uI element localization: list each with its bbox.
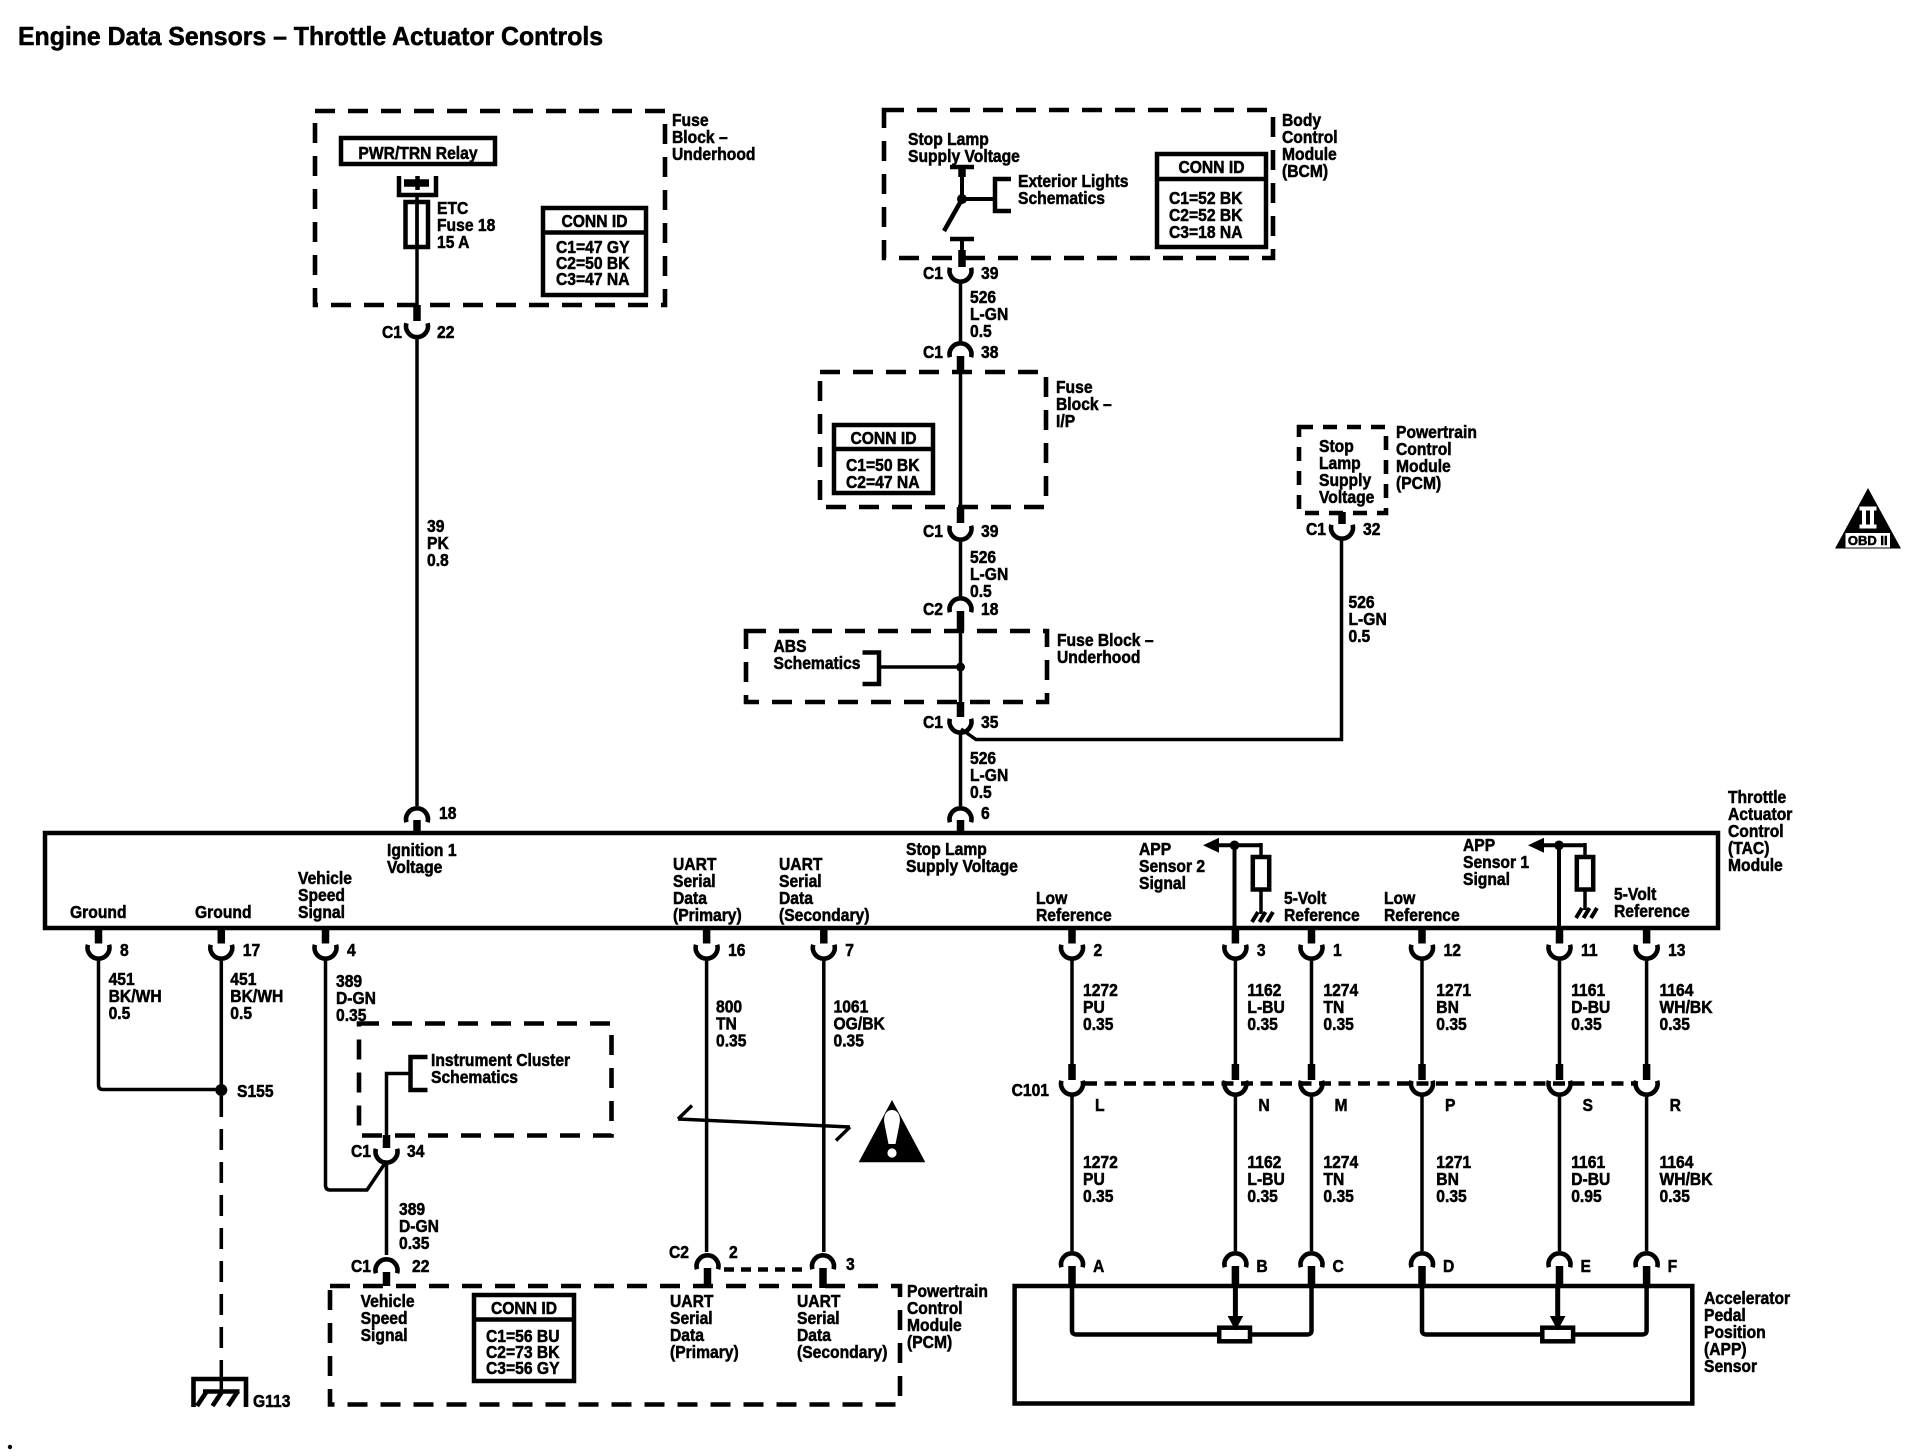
- svg-text:B: B: [1256, 1256, 1267, 1276]
- wire label 389 D-GN 0.35 (lower): [399, 1199, 439, 1253]
- pin letter C of APP sensor: [1333, 1256, 1344, 1276]
- stop lamp switch in BCM: [950, 165, 974, 170]
- pin number 1: [1333, 940, 1342, 960]
- potentiometer APP1: [1542, 1328, 1573, 1342]
- wire label 1161 D-BU 0.95 (lower): [1571, 1152, 1610, 1206]
- ground symbol G113: [194, 1379, 247, 1407]
- connector C1 35 (fuse block underhood out): [950, 719, 972, 733]
- callout pointer line: [678, 1106, 850, 1141]
- title: [18, 22, 603, 51]
- connector C1 34 (instrument cluster): [376, 1149, 398, 1163]
- svg-text:C3=18 NA: C3=18 NA: [1169, 222, 1243, 242]
- wire 1164 WH/BK (lower segment R): [1645, 1097, 1649, 1252]
- wire label 1271 BN 0.35 (lower): [1436, 1152, 1471, 1206]
- connector C101 pin L: [1061, 1081, 1083, 1095]
- connector TAC pin 13: [1636, 945, 1658, 959]
- pin number 6: [981, 803, 990, 823]
- svg-text:C1: C1: [923, 521, 943, 541]
- PWR/TRN Relay box: [341, 138, 495, 164]
- wire: switch output: [960, 239, 964, 252]
- svg-text:Schematics: Schematics: [774, 653, 861, 673]
- svg-text:(PCM): (PCM): [907, 1332, 952, 1352]
- pin number 2: [1094, 940, 1103, 960]
- wire label 1272 PU 0.35 (upper): [1083, 980, 1118, 1034]
- label C2 of connector C2 18 (fuse block underhood): [923, 599, 943, 619]
- connector C1 38 (fuse block IP): [950, 343, 972, 357]
- wire APP pin F to potentiometer 2: [1573, 1286, 1647, 1335]
- PCM UART secondary label: [797, 1291, 887, 1362]
- svg-text:Reference: Reference: [1036, 905, 1112, 925]
- dashed connector link C2-2 to 3: [724, 1267, 809, 1272]
- label G113: [253, 1391, 290, 1411]
- label C2 of connector C2 2 (PCM UART primary): [669, 1242, 689, 1262]
- wire 1061 OG/BK (pin 7) to PCM pin 3: [822, 959, 826, 1252]
- svg-text:2: 2: [1094, 940, 1103, 960]
- svg-text:Signal: Signal: [1139, 873, 1186, 893]
- pin letter A of APP sensor: [1093, 1256, 1104, 1276]
- svg-text:Supply Voltage: Supply Voltage: [908, 146, 1020, 166]
- wire label 526 L-GN 0.5 (c): [970, 748, 1008, 802]
- wire label 1162 L-BU 0.35 (upper): [1247, 980, 1284, 1034]
- label C1 of connector C1 35 (fuse block underhood out): [923, 712, 943, 732]
- pin number 39 of connector C1 39 (BCM): [981, 263, 998, 283]
- fuse block - underhood (relay) dashed box: [315, 111, 665, 305]
- warning note triangle: [859, 1100, 926, 1162]
- PCM UART primary label: [670, 1291, 739, 1362]
- svg-text:0.5: 0.5: [109, 1003, 131, 1023]
- svg-text:F: F: [1668, 1256, 1678, 1276]
- wire: relay through fuse down to C1-22: [415, 195, 419, 309]
- connector TAC pin 12: [1411, 945, 1433, 959]
- svg-text:0.95: 0.95: [1571, 1186, 1601, 1206]
- BCM module label: [1282, 110, 1338, 181]
- svg-text:A: A: [1093, 1256, 1104, 1276]
- svg-text:39: 39: [981, 521, 998, 541]
- ABS schematics label: [774, 636, 861, 673]
- svg-text:P: P: [1445, 1095, 1455, 1115]
- svg-text:15 A: 15 A: [437, 232, 469, 252]
- wire to pull-up resistor APP2: [1259, 843, 1263, 857]
- wire label 1161 D-BU 0.35 (upper): [1571, 980, 1610, 1034]
- wire label 451 BK/WH 0.5 (pin 8): [109, 969, 162, 1023]
- PCM vehicle speed signal label: [361, 1291, 415, 1345]
- pin number 35 of connector C1 35 (fuse block underhood out): [981, 712, 998, 732]
- connector C1 39 (BCM): [950, 268, 972, 282]
- wire 1162 L-BU (lower segment N): [1234, 1097, 1238, 1252]
- wire: instrument cluster bracket to C1-34: [387, 1074, 411, 1136]
- svg-text:0.35: 0.35: [1660, 1014, 1690, 1034]
- pin letter N of C101: [1258, 1095, 1269, 1115]
- pin letter E of APP sensor: [1581, 1256, 1591, 1276]
- stub TAC pin 8: [95, 930, 103, 944]
- svg-text:32: 32: [1363, 519, 1380, 539]
- svg-text:0.5: 0.5: [230, 1003, 252, 1023]
- wire label 1162 L-BU 0.35 (lower): [1247, 1152, 1284, 1206]
- stub TAC pin 11: [1556, 930, 1564, 944]
- bracket to Exterior Lights Schematics: [995, 179, 1011, 211]
- wire APP pin D to potentiometer 2: [1422, 1286, 1542, 1335]
- label C1 of connector C1 22 (PCM vehicle speed): [351, 1256, 371, 1276]
- pin number 4: [347, 940, 356, 960]
- wire 800 TN (pin 16) to PCM C2-2: [705, 959, 709, 1252]
- svg-text:0.35: 0.35: [1083, 1186, 1113, 1206]
- svg-text:I/P: I/P: [1056, 411, 1075, 431]
- stub TAC pin 3: [1232, 930, 1240, 944]
- stub below APP pin L: [1068, 1266, 1076, 1286]
- svg-text:Reference: Reference: [1614, 901, 1690, 921]
- TAC label ignition 1 voltage: [387, 840, 457, 877]
- wire label 526 L-GN 0.5 (d): [1349, 592, 1387, 646]
- CONN ID table (fuse block IP): [834, 425, 933, 493]
- stub TAC pin 4: [322, 930, 330, 944]
- connector pin 3 (PCM UART secondary): [812, 1255, 834, 1269]
- pin letter D of APP sensor: [1443, 1256, 1454, 1276]
- pin number 11: [1581, 940, 1598, 960]
- svg-text:11: 11: [1581, 940, 1598, 960]
- svg-text:0.35: 0.35: [1247, 1186, 1277, 1206]
- svg-text:CONN ID: CONN ID: [1178, 157, 1244, 177]
- wire 526 L-GN 0.5 down to TAC pin 6: [959, 734, 963, 807]
- stub below C2-2: [704, 1268, 712, 1288]
- stub below C2-18: [957, 611, 965, 631]
- svg-text:38: 38: [981, 342, 998, 362]
- TAC label Ground 2: [195, 902, 252, 922]
- stub above C101 S: [1556, 1064, 1564, 1080]
- wire resistor APP1 to ground: [1583, 890, 1587, 911]
- stub below APP pin R: [1643, 1266, 1651, 1286]
- connector C1 32 (PCM): [1331, 525, 1353, 539]
- TAC label UART primary: [673, 854, 742, 925]
- svg-text:Voltage: Voltage: [387, 857, 442, 877]
- svg-text:E: E: [1581, 1256, 1591, 1276]
- CONN ID table (BCM): [1157, 154, 1266, 247]
- fuse block underhood label: [672, 110, 755, 164]
- svg-text:Signal: Signal: [361, 1325, 408, 1345]
- connector TAC pin 3: [1224, 945, 1246, 959]
- TAC label 5-volt reference 2: [1614, 884, 1690, 921]
- svg-text:Underhood: Underhood: [672, 144, 755, 164]
- label C1 of connector C1 39 (BCM): [923, 263, 943, 283]
- svg-text:C1: C1: [351, 1141, 371, 1161]
- BCM stop lamp supply voltage label: [908, 129, 1020, 166]
- instrument cluster schematics label: [431, 1050, 571, 1087]
- connector C2 2 (PCM UART primary): [697, 1255, 719, 1269]
- pin number 17: [243, 940, 260, 960]
- wire APP2 signal down to pin 3: [1233, 845, 1237, 928]
- svg-text:C1: C1: [923, 263, 943, 283]
- pin number 13: [1668, 940, 1685, 960]
- stub below APP pin N: [1232, 1266, 1240, 1286]
- wire resistor APP2 to ground: [1259, 890, 1263, 915]
- svg-text:(BCM): (BCM): [1282, 161, 1328, 181]
- TAC label Ground 1: [70, 902, 127, 922]
- wire 389 D-GN (pin 4) down and to C1-34: [326, 959, 387, 1190]
- bracket to ABS schematics: [863, 653, 880, 685]
- connector TAC pin 4: [315, 945, 337, 959]
- label C1 of connector C1 38 (fuse block IP): [923, 342, 943, 362]
- connector APP pin R: [1636, 1253, 1658, 1267]
- svg-text:35: 35: [981, 712, 998, 732]
- throttle actuator control (TAC) module box: [45, 833, 1718, 928]
- svg-text:13: 13: [1668, 940, 1685, 960]
- switch lower contact tick: [950, 237, 974, 242]
- dashed connector line C101: [1085, 1081, 1635, 1086]
- svg-text:Underhood: Underhood: [1057, 647, 1140, 667]
- pin number 32 of connector C1 32 (PCM): [1363, 519, 1380, 539]
- svg-text:Ground: Ground: [70, 902, 127, 922]
- pin letter R of C101: [1670, 1095, 1681, 1115]
- connector TAC pin 1: [1301, 945, 1323, 959]
- stub above C101 P: [1418, 1064, 1426, 1080]
- switch blade: [944, 201, 961, 231]
- svg-text:C2: C2: [923, 599, 943, 619]
- svg-text:C1: C1: [382, 322, 402, 342]
- svg-text:8: 8: [120, 940, 129, 960]
- stub TAC pin 1: [1308, 930, 1316, 944]
- svg-text:C1: C1: [351, 1256, 371, 1276]
- svg-text:1: 1: [1333, 940, 1342, 960]
- PCM bottom module label: [907, 1281, 988, 1352]
- TAC label low reference 1: [1036, 888, 1112, 925]
- svg-text:22: 22: [412, 1256, 429, 1276]
- svg-text:PWR/TRN Relay: PWR/TRN Relay: [358, 143, 478, 163]
- stub below C1-22 into PCM: [383, 1272, 391, 1286]
- pin number 8: [120, 940, 129, 960]
- junction node APP2: [1230, 841, 1240, 851]
- svg-text:16: 16: [728, 940, 745, 960]
- resistor R-APP1 (pull-up): [1577, 857, 1593, 890]
- label S155: [237, 1081, 274, 1101]
- stub TAC pin 2: [1068, 930, 1076, 944]
- pin letter F of APP sensor: [1668, 1256, 1678, 1276]
- svg-text:6: 6: [981, 803, 990, 823]
- wire label 1274 TN 0.35 (upper): [1323, 980, 1358, 1034]
- connector TAC pin 16: [696, 945, 718, 959]
- instrument cluster dashed box: [359, 1024, 612, 1136]
- svg-text:0.35: 0.35: [1571, 1014, 1601, 1034]
- connector TAC pin 18: [406, 808, 428, 822]
- stub TAC pin 17: [218, 930, 226, 944]
- pin number 39 of connector C1 39 (fuse block IP): [981, 521, 998, 541]
- connector TAC pin 17: [210, 945, 232, 959]
- fuse block - underhood (ABS) dashed box: [746, 631, 1047, 702]
- svg-text:C101: C101: [1012, 1080, 1049, 1100]
- svg-text:0.5: 0.5: [970, 782, 992, 802]
- pin number 34 of connector C1 34 (instrument cluster): [407, 1141, 425, 1161]
- wire 1274 TN (lower segment M): [1310, 1097, 1314, 1252]
- svg-text:M: M: [1335, 1095, 1348, 1115]
- svg-text:Reference: Reference: [1284, 905, 1360, 925]
- wire to pull-up resistor APP1: [1583, 843, 1587, 857]
- powertrain control module (PCM) dashed box: [1299, 427, 1386, 513]
- wire 1271 BN (lower segment P): [1420, 1097, 1424, 1252]
- svg-text:C1: C1: [923, 342, 943, 362]
- pin letter P of C101: [1445, 1095, 1455, 1115]
- APP sensor 1 signal arrow: [1528, 838, 1585, 853]
- svg-text:Module: Module: [1728, 855, 1783, 875]
- connector TAC pin 7: [813, 945, 835, 959]
- stub TAC pin 16: [703, 930, 711, 944]
- body control module (BCM) dashed box: [884, 110, 1273, 258]
- wire 1162 L-BU (upper segment N): [1234, 959, 1238, 1064]
- svg-text:18: 18: [439, 803, 456, 823]
- wire label 1061 OG/BK 0.35: [834, 996, 886, 1050]
- svg-text:R: R: [1670, 1095, 1681, 1115]
- svg-text:C2=47 NA: C2=47 NA: [846, 472, 920, 492]
- wire label 526 L-GN 0.5 (a): [970, 287, 1008, 341]
- fuse block IP label: [1056, 377, 1112, 431]
- connector APP pin S: [1549, 1253, 1571, 1267]
- svg-text:(Secondary): (Secondary): [797, 1342, 887, 1362]
- svg-text:L: L: [1095, 1095, 1105, 1115]
- fuse ETC Fuse 18 15 A: [406, 202, 429, 247]
- pin number 16: [728, 940, 745, 960]
- stub above C1-39 (IP out): [957, 507, 965, 523]
- pin number 22 of connector C1 22 (fuse block underhood): [437, 322, 454, 342]
- wire 451 BK/WH (pin 17) to S155: [220, 959, 224, 1085]
- TAC module label: [1728, 787, 1793, 875]
- APP sensor 2 signal arrow: [1203, 838, 1261, 853]
- pin number 2 of connector C2 2 (PCM UART primary): [729, 1242, 738, 1262]
- PCM stop lamp supply voltage label: [1319, 436, 1374, 507]
- OBD II marker triangle: [1835, 488, 1901, 549]
- svg-text:0.35: 0.35: [1083, 1014, 1113, 1034]
- wire 1272 PU (lower segment L): [1070, 1097, 1074, 1252]
- pin number 18 of connector C2 18 (fuse block underhood): [981, 599, 998, 619]
- svg-text:N: N: [1258, 1095, 1269, 1115]
- wire 1164 WH/BK (upper segment R): [1645, 959, 1649, 1064]
- TAC label APP sensor 1 signal: [1463, 835, 1529, 889]
- svg-text:(Primary): (Primary): [670, 1342, 739, 1362]
- stub above C1-35: [957, 702, 965, 717]
- connector C1 22 (fuse block underhood): [406, 323, 428, 337]
- svg-text:Engine Data Sensors – Throttle: Engine Data Sensors – Throttle Actuator …: [18, 22, 603, 51]
- wire APP pin C to potentiometer 1: [1250, 1286, 1312, 1335]
- wire 39 PK 0.8 down to TAC pin 18: [415, 339, 419, 807]
- stub below PCM box: [1338, 512, 1346, 524]
- svg-text:D: D: [1443, 1256, 1454, 1276]
- svg-text:Voltage: Voltage: [1319, 487, 1374, 507]
- stub below APP pin P: [1418, 1266, 1426, 1286]
- pin number 38 of connector C1 38 (fuse block IP): [981, 342, 998, 362]
- wire label 800 TN 0.35: [716, 996, 746, 1050]
- svg-text:S: S: [1583, 1095, 1593, 1115]
- wire label 1164 WH/BK 0.35 (upper): [1660, 980, 1714, 1034]
- connector C101 pin S: [1549, 1081, 1571, 1095]
- wire label 1164 WH/BK 0.35 (lower): [1660, 1152, 1714, 1206]
- PCM module label: [1396, 422, 1477, 493]
- connector TAC pin 2: [1061, 945, 1083, 959]
- wire label 451 BK/WH 0.5 (pin 17): [230, 969, 283, 1023]
- svg-text:Signal: Signal: [298, 902, 345, 922]
- pin number 22 of connector C1 22 (PCM vehicle speed): [412, 1256, 429, 1276]
- connector APP pin L: [1061, 1253, 1083, 1267]
- wiper arrow APP1 (pin E): [1550, 1286, 1566, 1331]
- pin number 3 of connector pin 3 (PCM UART secondary): [846, 1254, 855, 1274]
- svg-text:C3=47 NA: C3=47 NA: [556, 269, 630, 289]
- stray period mark: [8, 1445, 12, 1449]
- svg-text:Signal: Signal: [1463, 869, 1510, 889]
- chassis ground (APP2 pull-up): [1252, 912, 1273, 922]
- svg-text:OBD II: OBD II: [1848, 533, 1888, 548]
- wire 1161 D-BU (lower segment S): [1558, 1097, 1562, 1252]
- relay contact symbol: [399, 176, 436, 195]
- junction node APP1: [1554, 841, 1564, 851]
- svg-text:S155: S155: [237, 1081, 274, 1101]
- wire 1271 BN (upper segment P): [1420, 959, 1424, 1064]
- svg-text:0.5: 0.5: [970, 321, 992, 341]
- TAC label vehicle speed signal: [298, 868, 352, 922]
- wire 451 BK/WH (pin 8) to S155: [99, 959, 217, 1090]
- junction node S (ABS tap): [956, 663, 965, 672]
- svg-text:39: 39: [981, 263, 998, 283]
- junction node (switch to exterior lights): [957, 194, 967, 204]
- svg-text:G113: G113: [253, 1391, 290, 1411]
- connector C101 pin R: [1636, 1081, 1658, 1095]
- wire APP pin A to potentiometer 1: [1072, 1286, 1219, 1335]
- pin letter S of C101: [1583, 1095, 1593, 1115]
- svg-text:0.35: 0.35: [1247, 1014, 1277, 1034]
- svg-text:(Primary): (Primary): [673, 905, 742, 925]
- svg-text:18: 18: [981, 599, 998, 619]
- wire APP1 signal down to pin 11: [1557, 845, 1561, 928]
- stub above C1-34: [383, 1135, 391, 1148]
- splice S155: [215, 1084, 227, 1096]
- svg-text:0.5: 0.5: [1349, 626, 1371, 646]
- stub TAC pin 12: [1418, 930, 1426, 944]
- TAC label 5-volt reference 1: [1284, 888, 1360, 925]
- pin letter M of C101: [1335, 1095, 1348, 1115]
- ETC fuse label: [437, 198, 495, 252]
- CONN ID table (PCM): [474, 1295, 574, 1381]
- svg-text:C: C: [1333, 1256, 1344, 1276]
- wire label 1274 TN 0.35 (lower): [1323, 1152, 1358, 1206]
- svg-text:Schematics: Schematics: [1018, 188, 1105, 208]
- svg-text:0.35: 0.35: [1323, 1014, 1353, 1034]
- label C1 of connector C1 34 (instrument cluster): [351, 1141, 371, 1161]
- svg-text:CONN ID: CONN ID: [561, 211, 627, 231]
- svg-text:34: 34: [407, 1141, 425, 1161]
- svg-text:2: 2: [729, 1242, 738, 1262]
- stub above C101 L: [1068, 1064, 1076, 1080]
- label C101: [1012, 1080, 1049, 1100]
- potentiometer APP2: [1219, 1328, 1250, 1342]
- svg-text:Sensor: Sensor: [1704, 1356, 1757, 1376]
- svg-text:C1: C1: [1306, 519, 1326, 539]
- dashed ground wire S155 to G113: [220, 1096, 224, 1360]
- connector APP pin N: [1224, 1253, 1246, 1267]
- wire label 389 D-GN 0.35 (upper): [336, 971, 376, 1025]
- label C1 of connector C1 22 (fuse block underhood): [382, 322, 402, 342]
- wire: ABS bracket to stop lamp wire: [879, 665, 961, 669]
- stub below TAC pin 6 connector: [957, 820, 965, 831]
- CONN ID table (fuse block underhood): [543, 208, 646, 295]
- TAC label APP sensor 2 signal: [1139, 839, 1205, 893]
- wire label 526 L-GN 0.5 (b): [970, 547, 1008, 601]
- svg-text:0.35: 0.35: [399, 1233, 429, 1253]
- connector C1 22 (PCM vehicle speed): [376, 1259, 398, 1273]
- svg-text:C3=56 GY: C3=56 GY: [486, 1358, 560, 1378]
- bracket to instrument cluster schematics: [411, 1057, 428, 1090]
- wire label 39 PK 0.8: [427, 516, 450, 570]
- wire 1161 D-BU (upper segment S): [1558, 959, 1562, 1064]
- connector C101 pin M: [1301, 1081, 1323, 1095]
- svg-text:3: 3: [1257, 940, 1266, 960]
- svg-text:0.35: 0.35: [716, 1030, 746, 1050]
- pin number 7: [845, 940, 854, 960]
- connector TAC pin 8: [88, 945, 110, 959]
- stub: BCM output to C1-39: [958, 250, 966, 267]
